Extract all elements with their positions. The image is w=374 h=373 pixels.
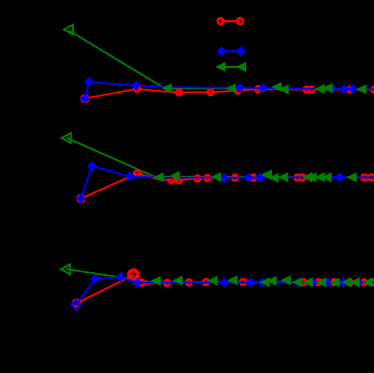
bottom subplot green series line — [66, 269, 374, 282]
middle subplot green series left-triangle markers — [62, 133, 357, 183]
top subplot red series (line + open circle markers) — [81, 86, 374, 102]
legend blue entry: line with two filled diamonds — [217, 46, 246, 56]
legend red entry: line with two open circles — [218, 18, 243, 24]
top subplot green series line — [69, 31, 374, 90]
middle subplot green series line — [67, 138, 374, 177]
bottom subplot red series (line + open circle markers) — [73, 270, 374, 307]
bottom subplot green series left-triangle markers — [61, 264, 373, 287]
legend green entry: line with two filled left-triangles — [215, 62, 246, 72]
bottom subplot blue series (line + diamond markers) — [72, 272, 374, 309]
top subplot blue series (line + diamond markers) — [80, 77, 374, 104]
middle subplot blue series (line + diamond markers) — [76, 161, 374, 204]
middle subplot red series (line + open circle markers) — [77, 171, 374, 202]
top subplot green series left-triangle markers — [64, 25, 367, 95]
